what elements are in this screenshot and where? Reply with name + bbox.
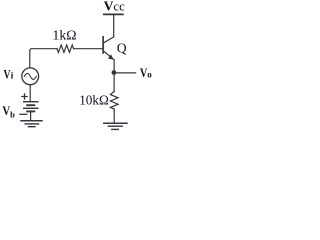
wire node down to resistor R2 xyxy=(113,73,115,92)
wire resistor R2 to ground xyxy=(113,109,115,123)
svg-text:cc: cc xyxy=(113,0,125,14)
transistor Q emitter lead xyxy=(104,51,115,60)
svg-text:i: i xyxy=(11,71,14,81)
svg-text:V: V xyxy=(140,66,148,80)
transistor Q emitter arrow xyxy=(108,54,114,59)
label Vb xyxy=(2,104,15,120)
svg-text:V: V xyxy=(4,68,11,82)
resistor R1 1kΩ zigzag xyxy=(57,45,74,52)
label Vi xyxy=(4,68,14,82)
svg-text:b: b xyxy=(10,110,15,120)
wire emitter down to output node xyxy=(113,60,115,73)
wire left corner down from resistor R1 to source xyxy=(30,49,57,68)
source Vi circle xyxy=(22,68,39,85)
svg-text:Q: Q xyxy=(117,40,127,55)
label Vcc xyxy=(104,0,125,14)
wire node to Vo xyxy=(114,72,136,74)
minus sign xyxy=(20,113,27,115)
ground right xyxy=(104,123,127,129)
transistor Q base bar xyxy=(102,37,104,53)
svg-text:o: o xyxy=(147,70,152,80)
svg-text:10kΩ: 10kΩ xyxy=(79,92,109,107)
plus sign xyxy=(22,94,27,99)
wire Vcc to collector xyxy=(113,16,115,37)
source Vi sine wave xyxy=(24,73,36,79)
wire battery to ground xyxy=(30,111,32,120)
node junction dot xyxy=(112,70,117,75)
wire resistor R1 to base xyxy=(74,48,104,50)
battery Vb plates xyxy=(24,102,38,112)
svg-text:V: V xyxy=(104,0,114,14)
power rail Vcc bar xyxy=(104,13,123,15)
wire Vi to battery xyxy=(29,85,31,102)
label Vo xyxy=(140,66,152,80)
transistor Q collector lead xyxy=(104,37,114,43)
svg-text:1kΩ: 1kΩ xyxy=(52,28,76,43)
ground left xyxy=(21,121,42,127)
resistor R2 10kΩ zigzag xyxy=(110,91,118,109)
